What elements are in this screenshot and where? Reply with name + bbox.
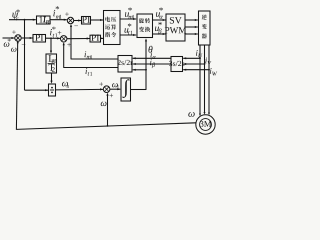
wire 1/Lm to sum S1	[50, 19, 67, 21]
label omega_1	[112, 83, 119, 89]
summing junction S1 flux current error	[67, 17, 73, 23]
node theta branch	[145, 69, 147, 71]
label i_V	[205, 58, 211, 66]
block voltage command calculator	[104, 11, 121, 45]
label i*_t1	[50, 27, 57, 38]
node tap W	[208, 69, 210, 71]
label i_W	[210, 68, 217, 76]
wire Lm/T2 to divider	[50, 73, 52, 84]
block inverter	[199, 11, 211, 45]
label S3 plus bottom	[109, 94, 113, 98]
wire integrator to theta vertical	[131, 38, 148, 90]
wire i_beta	[133, 63, 171, 65]
wire u*_beta to SVPWM	[153, 33, 166, 35]
label u*_t1	[124, 24, 132, 35]
wire i_V tap to 3s/2s	[183, 63, 204, 65]
label S1 minus	[74, 25, 78, 27]
wire SVPWM to inverter 2	[185, 26, 198, 28]
block PI2b torque current regulator	[90, 35, 101, 42]
block SVPWM	[165, 14, 186, 41]
node tap U	[199, 57, 201, 59]
node i*_t1 branch	[50, 37, 52, 39]
block 1/Lm	[37, 16, 52, 24]
wire PI2b to voltage block	[100, 37, 103, 39]
summing junction S2a speed error	[15, 35, 21, 41]
wire u*_m1 to rotation block	[120, 18, 136, 20]
label i_beta	[150, 59, 155, 68]
label i_U	[196, 50, 203, 58]
label S2b plus left	[58, 31, 62, 35]
label u*_beta	[155, 22, 162, 35]
wire i_t1 feedback	[63, 42, 118, 68]
label i*_m1	[53, 6, 61, 18]
wire i_alpha	[133, 57, 171, 59]
wire theta to 2s/2r	[133, 69, 146, 71]
wire omega branch to S3	[106, 93, 108, 126]
wire u*_alpha to SVPWM	[153, 19, 166, 21]
label i_t1	[85, 68, 92, 76]
summing junction S3 slip plus speed	[103, 86, 110, 93]
label S2b plus bottom	[67, 43, 71, 47]
wire PI2a to sum S2b	[46, 37, 61, 39]
wire i*_t1 branch to Lm/T2	[50, 38, 52, 53]
wire S2b to PI2b	[67, 37, 90, 39]
wire PI1 to voltage block	[91, 19, 104, 21]
wire psi_r* input	[9, 19, 36, 21]
wire i_U tap to 3s/2s	[183, 57, 200, 59]
label omega* speed command	[4, 39, 11, 47]
wire i_W tap to 3s/2s	[183, 69, 209, 71]
label omega at motor	[188, 112, 194, 117]
wire S2a to PI2a	[21, 37, 33, 39]
label psi_r* rotor flux command	[12, 9, 19, 20]
block 2s/2r Park transform	[118, 56, 133, 73]
node omega branch	[107, 125, 109, 127]
wire omega* input	[3, 37, 15, 39]
motor 3-phase induction machine	[196, 115, 215, 134]
label omega_s	[62, 82, 69, 88]
label S2a plus	[12, 30, 16, 34]
block PI1 flux current regulator	[82, 16, 91, 24]
label S2a minus	[22, 43, 26, 45]
label S1 plus	[65, 12, 69, 16]
wire i_m1 feedback	[70, 24, 118, 60]
wire SVPWM to inverter 1	[185, 19, 198, 21]
block PI2a speed regulator	[33, 35, 46, 43]
label omega feedback near S2a	[11, 48, 16, 52]
label i_alpha	[150, 52, 155, 60]
node tap V	[204, 63, 206, 65]
wire u*_t1 to rotation block	[120, 34, 136, 36]
wire omega feedback from motor	[16, 40, 196, 129]
label S3 plus left	[99, 82, 103, 86]
wire omega_s to S3	[56, 88, 104, 90]
wire psi_r* branch to divider	[25, 20, 49, 92]
summing junction S2b torque current error	[61, 36, 67, 42]
wire S1 to PI1	[74, 19, 82, 21]
label omega at branch	[101, 102, 107, 106]
label i_m1	[84, 51, 92, 58]
wire phase V	[204, 45, 206, 115]
block Lm/T2 slip gain	[46, 54, 57, 73]
label u*_m1	[125, 8, 134, 19]
block 3s/2s Clarke transform	[169, 57, 184, 72]
wire S3 to integrator	[110, 88, 120, 90]
wire SVPWM to inverter 3	[185, 33, 198, 35]
node psi_r* branch	[24, 19, 26, 21]
block integrator	[121, 78, 131, 101]
wire phase U	[199, 45, 201, 116]
label theta	[148, 46, 152, 53]
wire phase W	[208, 45, 210, 115]
label u*_alpha	[156, 8, 163, 19]
block divider	[49, 84, 56, 96]
block rotation transform	[137, 14, 153, 38]
